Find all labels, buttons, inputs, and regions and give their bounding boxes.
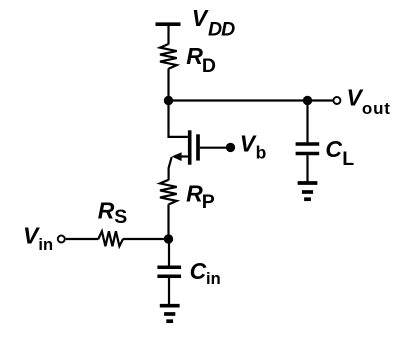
wire RS to input node bbox=[123, 238, 169, 240]
svg-text:b: b bbox=[256, 143, 267, 163]
transistor M1 source arrow bbox=[172, 152, 182, 161]
resistor RP bbox=[160, 180, 177, 205]
wire CL to ground bbox=[306, 155, 308, 182]
svg-text:R: R bbox=[186, 181, 203, 207]
node output junction dot bbox=[303, 96, 312, 105]
label VDD bbox=[192, 5, 235, 41]
terminal Vin open circle bbox=[58, 236, 65, 243]
svg-text:C: C bbox=[190, 258, 207, 284]
wire gate to Vb terminal bbox=[200, 147, 227, 149]
ground (Cin) bbox=[160, 306, 180, 322]
svg-text:in: in bbox=[38, 236, 53, 254]
wire source to RP bbox=[169, 157, 172, 180]
resistor RS bbox=[98, 231, 123, 246]
svg-text:P: P bbox=[202, 191, 215, 213]
svg-text:DD: DD bbox=[208, 19, 235, 41]
transistor M1 channel bar bbox=[188, 130, 192, 164]
transistor M1 source stub bbox=[181, 155, 188, 157]
ground (CL) bbox=[298, 183, 318, 199]
svg-text:S: S bbox=[114, 206, 127, 228]
capacitor Cin bbox=[157, 267, 181, 276]
wire drain node down to transistor drain bbox=[169, 101, 188, 137]
resistor RD bbox=[160, 44, 177, 69]
wire RP to input node bbox=[167, 204, 169, 239]
svg-text:L: L bbox=[342, 148, 354, 170]
label Cin bbox=[190, 258, 221, 288]
transistor M1 gate bar bbox=[196, 134, 200, 160]
node input junction dot bbox=[164, 234, 173, 243]
label Vout bbox=[347, 85, 391, 118]
wire output node to Vout terminal bbox=[308, 99, 334, 101]
svg-text:V: V bbox=[240, 131, 257, 157]
label RD bbox=[186, 43, 216, 77]
wire VDD to RD bbox=[167, 26, 169, 45]
svg-text:R: R bbox=[186, 43, 203, 69]
svg-text:C: C bbox=[325, 136, 342, 162]
wire drain node to output node bbox=[169, 99, 308, 101]
node drain junction dot bbox=[164, 96, 173, 105]
svg-text:D: D bbox=[202, 55, 216, 77]
VDD supply bar bbox=[156, 22, 181, 26]
svg-text:V: V bbox=[192, 5, 209, 31]
label RP bbox=[186, 181, 215, 213]
wire output node to CL bbox=[306, 101, 308, 143]
wire input node to Cin bbox=[168, 239, 170, 266]
label Vb bbox=[240, 131, 267, 163]
svg-text:out: out bbox=[362, 99, 391, 118]
wire Vin to RS bbox=[66, 238, 99, 240]
capacitor CL bbox=[296, 144, 320, 154]
label CL bbox=[325, 136, 354, 170]
label RS bbox=[98, 198, 128, 228]
svg-text:in: in bbox=[206, 270, 221, 288]
terminal Vb dot bbox=[226, 143, 235, 152]
wire RD to drain node bbox=[167, 69, 169, 101]
label Vin bbox=[23, 223, 53, 254]
svg-text:R: R bbox=[98, 198, 115, 224]
terminal Vout open circle bbox=[333, 97, 340, 104]
wire Cin to ground bbox=[168, 278, 170, 304]
